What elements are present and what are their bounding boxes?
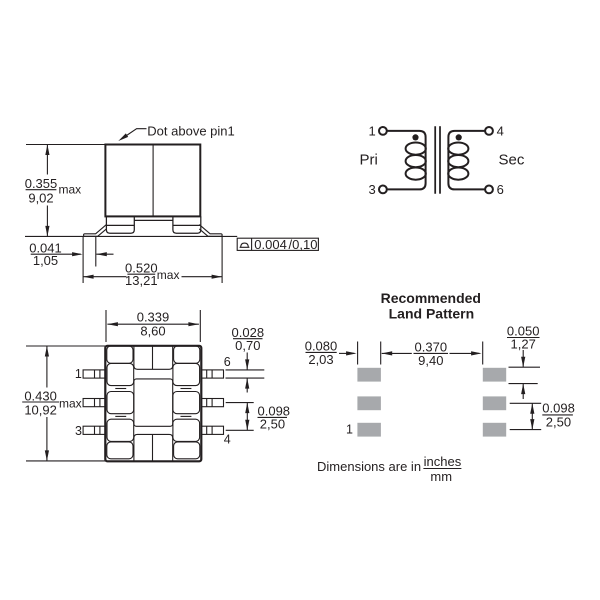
dimension 0.430 / 10,92 max (body height) xyxy=(22,346,105,461)
svg-text:Dimensions are in: Dimensions are in xyxy=(317,459,421,474)
primary winding loop 2 xyxy=(406,155,426,167)
pin 1 terminal xyxy=(368,124,386,139)
svg-text:4: 4 xyxy=(497,124,504,139)
lead pin 4 (right bottom) xyxy=(201,426,223,434)
terminal pad 3 (left bottom) xyxy=(107,419,134,441)
dimension 0.339 / 8,60 (body width) xyxy=(106,309,200,342)
svg-text:0.430: 0.430 xyxy=(24,388,57,403)
leader "Dot above pin1" xyxy=(117,123,235,142)
svg-text:2,50: 2,50 xyxy=(546,415,571,430)
left gull-wing lead xyxy=(84,225,107,237)
svg-text:2,50: 2,50 xyxy=(260,417,285,432)
lead pin 6 (right top) xyxy=(201,370,223,378)
flatness feature control frame 0.004/0,10 xyxy=(237,237,318,252)
core line right xyxy=(439,126,441,194)
primary polarity dot xyxy=(412,134,418,140)
pin number 3 xyxy=(75,424,82,438)
svg-text:8,60: 8,60 xyxy=(140,324,165,339)
lead pin 5 (right middle) xyxy=(201,399,223,407)
seating plane baseline xyxy=(25,235,237,237)
bobbin gap ticks left xyxy=(115,389,126,417)
core line left xyxy=(434,126,436,194)
pin 4 terminal xyxy=(485,124,504,139)
svg-text:1: 1 xyxy=(75,367,82,381)
land pin number 1 xyxy=(346,423,353,437)
corner post bottom-right xyxy=(174,442,200,459)
label Pri xyxy=(360,152,378,169)
svg-text:9,02: 9,02 xyxy=(28,191,53,206)
svg-text:0.370: 0.370 xyxy=(415,339,448,354)
svg-text:6: 6 xyxy=(497,182,504,197)
lead pin 1 (left top) xyxy=(83,370,105,378)
secondary winding U-bus with pin4/pin6 wires xyxy=(448,131,485,190)
corner post bottom-left xyxy=(107,442,133,459)
pin number 1 xyxy=(75,367,82,381)
secondary winding loop 3 xyxy=(448,168,468,180)
pin number 4 xyxy=(224,432,231,446)
svg-text:1: 1 xyxy=(346,423,353,437)
land pad 4 (right bottom) xyxy=(483,423,506,437)
svg-text:0.339: 0.339 xyxy=(137,309,170,324)
land pad 1 (left bottom) xyxy=(357,423,381,437)
terminal pad 6 (right top) xyxy=(173,363,200,385)
secondary winding loop 2 xyxy=(448,155,468,167)
land pad 5 (right middle) xyxy=(483,396,506,410)
dimension 0.355 / 9,02 max (body height) xyxy=(25,145,106,237)
svg-text:3: 3 xyxy=(368,182,375,197)
units note: Dimensions are in inches/mm xyxy=(317,454,462,484)
primary winding loop 3 xyxy=(406,168,426,180)
title Recommended Land Pattern xyxy=(381,290,481,322)
svg-text:9,40: 9,40 xyxy=(418,353,443,368)
land pad 3 (left top) xyxy=(357,368,381,382)
svg-text:3: 3 xyxy=(75,424,82,438)
dimension 0.370 / 9,40 (pad column gap) xyxy=(382,339,483,368)
body center parting line xyxy=(152,145,154,217)
svg-text:1,27: 1,27 xyxy=(511,336,536,351)
dimension 0.098 / 2,50 (pad pitch) xyxy=(510,401,575,430)
svg-text:0.080: 0.080 xyxy=(305,338,338,353)
central core square xyxy=(134,379,173,426)
svg-text:Pri: Pri xyxy=(360,152,378,169)
left bottom terminal pad (side view) xyxy=(106,216,134,233)
svg-text:Sec: Sec xyxy=(499,152,525,169)
svg-text:1,05: 1,05 xyxy=(33,253,58,268)
svg-text:13,21: 13,21 xyxy=(125,273,158,288)
corner post top-right xyxy=(174,346,200,363)
land pad 2 (left middle) xyxy=(357,396,381,410)
svg-text:0.098: 0.098 xyxy=(542,401,575,416)
svg-text:max: max xyxy=(59,183,82,197)
svg-text:1: 1 xyxy=(368,124,375,139)
secondary winding loop 1 xyxy=(448,143,468,155)
lead pin 2 (left middle) xyxy=(83,399,105,407)
terminal pad 2 (left middle) xyxy=(107,392,134,414)
dimension 0.041 / 1,05 (lead foot) xyxy=(29,236,113,283)
svg-text:Land Pattern: Land Pattern xyxy=(389,306,475,322)
dimension 0.520 / 13,21 max (overall width) xyxy=(83,236,222,288)
dimension 0.098 / 2,50 (lead pitch) xyxy=(226,403,290,432)
dimension 0.080 / 2,03 (pad width) xyxy=(305,338,381,367)
bottom center bobbin cells xyxy=(134,434,173,460)
dimension 0.028 / 0,70 (lead thickness) xyxy=(226,325,265,393)
recessed body line between pads xyxy=(134,219,173,221)
dimension 0.050 / 1,27 (pad height) xyxy=(507,324,540,399)
top center bobbin cells xyxy=(134,346,173,369)
svg-text:0.355: 0.355 xyxy=(25,176,58,191)
svg-text:mm: mm xyxy=(430,469,452,484)
svg-text:2,03: 2,03 xyxy=(308,352,333,367)
package body outline (bottom view) xyxy=(105,346,201,462)
right gull-wing lead xyxy=(199,225,222,237)
corner post top-left xyxy=(107,346,133,363)
svg-text:10,92: 10,92 xyxy=(24,403,57,418)
land pad 6 (right top) xyxy=(483,368,506,382)
svg-text:max: max xyxy=(157,268,180,282)
svg-text:inches: inches xyxy=(424,454,462,469)
svg-text:max: max xyxy=(59,396,82,410)
svg-text:6: 6 xyxy=(224,355,231,369)
svg-text:Recommended: Recommended xyxy=(381,290,481,306)
pin 3 terminal xyxy=(368,182,386,197)
label Sec xyxy=(499,152,525,169)
terminal pad 1 (left top) xyxy=(107,363,134,385)
terminal pad 5 (right middle) xyxy=(173,392,200,414)
svg-text:Dot above pin1: Dot above pin1 xyxy=(147,123,234,138)
pin number 6 xyxy=(224,355,231,369)
right bottom terminal pad (side view) xyxy=(173,216,201,233)
terminal pad 4 (right bottom) xyxy=(173,419,200,441)
lead pin 3 (left bottom) xyxy=(83,426,105,434)
svg-text:0.004/0,10: 0.004/0,10 xyxy=(254,237,317,252)
svg-text:0,70: 0,70 xyxy=(235,338,260,353)
primary winding loop 1 xyxy=(406,143,426,155)
package body outline (side view) xyxy=(105,145,200,217)
secondary polarity dot xyxy=(456,134,462,140)
bobbin gap ticks right xyxy=(181,389,192,417)
pin 6 terminal xyxy=(485,182,504,197)
primary winding U-bus with pin1/pin3 wires xyxy=(387,131,426,190)
svg-text:4: 4 xyxy=(224,432,231,446)
